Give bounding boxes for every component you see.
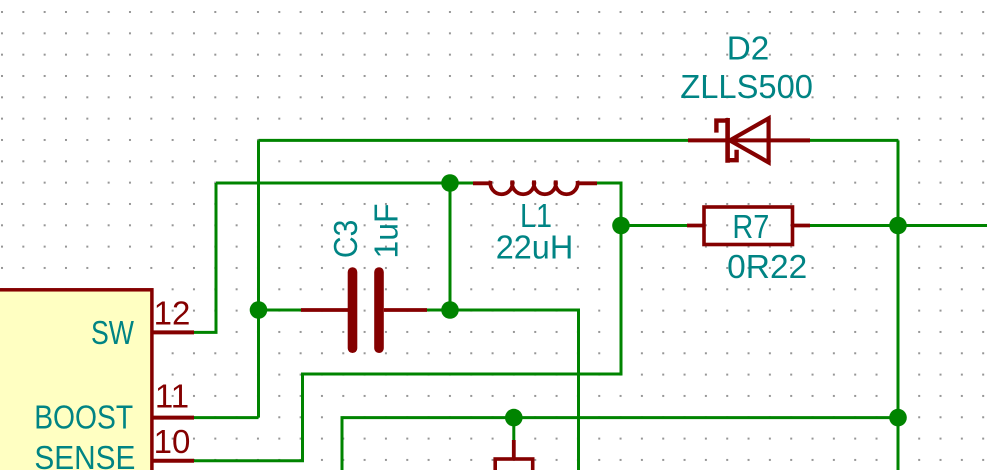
svg-text:SENSE: SENSE bbox=[34, 439, 135, 470]
wire SW pin12 to top rail bbox=[194, 183, 216, 332]
wire C3 right bbox=[427, 309, 450, 312]
inductor L1 bbox=[473, 181, 597, 194]
junction R7 right bbox=[889, 217, 907, 235]
wire R7 right bbox=[810, 224, 898, 227]
junction bottom right bbox=[889, 409, 907, 427]
wire R8 stub bbox=[512, 418, 515, 440]
wire right vertical rail bbox=[897, 140, 900, 470]
svg-text:C3: C3 bbox=[327, 220, 364, 259]
wire L1 junction down to C3 junction bbox=[449, 183, 452, 310]
pin 11 BOOST stub bbox=[152, 416, 194, 420]
svg-text:11: 11 bbox=[155, 377, 189, 414]
wire bottom bus bbox=[342, 418, 898, 470]
capacitor C3 bbox=[301, 272, 427, 348]
svg-text:1uF: 1uF bbox=[368, 204, 405, 259]
svg-text:SW: SW bbox=[91, 314, 135, 351]
wire diode right bbox=[810, 139, 898, 142]
wire BOOST pin11 bbox=[194, 416, 259, 419]
svg-text:ZLLS500: ZLLS500 bbox=[680, 68, 813, 105]
junction C3 right bbox=[441, 301, 459, 319]
svg-text:D2: D2 bbox=[727, 29, 770, 66]
resistor R8 (bottom, partly visible) bbox=[495, 440, 533, 470]
wire output right edge bbox=[898, 224, 987, 227]
wire C3 left bbox=[259, 309, 302, 312]
wire SENSE pin10 path bbox=[194, 226, 621, 461]
wire R7 left bbox=[621, 224, 687, 227]
junction R7 left bbox=[612, 217, 630, 235]
wire BOOST vertical bbox=[257, 140, 260, 417]
svg-text:BOOST: BOOST bbox=[34, 399, 133, 436]
resistor R7 bbox=[687, 207, 810, 245]
svg-text:0R22: 0R22 bbox=[727, 248, 807, 285]
diode D2 bbox=[688, 118, 810, 163]
IC U? body bbox=[0, 290, 152, 470]
svg-text:12: 12 bbox=[154, 294, 191, 331]
pin 10 SENSE stub bbox=[152, 459, 194, 463]
pin 12 SW stub bbox=[152, 330, 194, 334]
junction L1 input bbox=[441, 174, 459, 192]
wire L1 right to R7 row bbox=[597, 183, 621, 226]
svg-text:22uH: 22uH bbox=[496, 229, 574, 266]
wire C3 row to down rail bbox=[450, 310, 579, 470]
junction C3 left bbox=[250, 301, 268, 319]
svg-text:10: 10 bbox=[154, 423, 191, 460]
wire L1 left lead bbox=[450, 182, 473, 185]
wire top rail SW to L1 bbox=[216, 182, 450, 185]
svg-text:R7: R7 bbox=[732, 208, 769, 245]
junction R8 top bbox=[505, 409, 523, 427]
wire diode row left bbox=[259, 139, 689, 142]
